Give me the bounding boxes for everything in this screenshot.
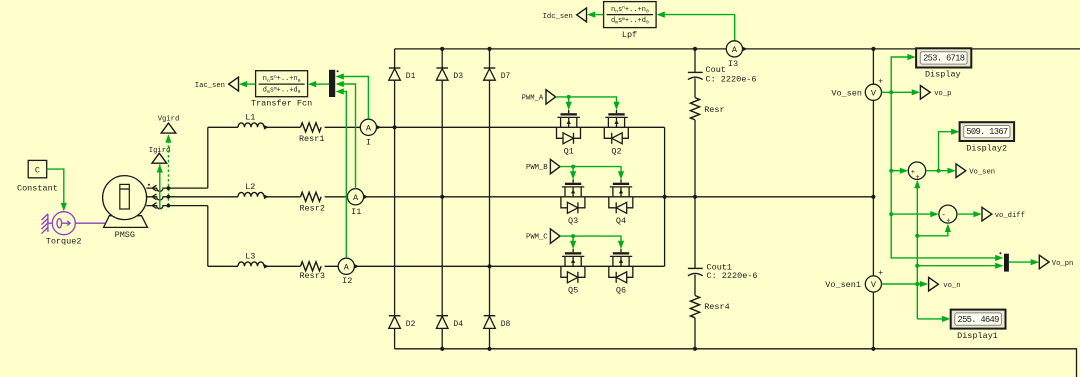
svg-text:Q5: Q5 (568, 286, 578, 296)
svg-text:V: V (871, 280, 877, 290)
wire vo_p trunk down (891, 92, 996, 258)
sum block (vo_p + vo_n) (908, 162, 925, 179)
svg-text:Vo_pn: Vo_pn (1052, 260, 1074, 268)
port PWM_C (550, 229, 560, 243)
resistor Resr (690, 98, 699, 120)
wire branch to Display2 (939, 132, 952, 171)
wire vo_diff bottom input (917, 231, 948, 236)
transistor Q3 (572, 179, 574, 182)
svg-text:Igird: Igird (149, 147, 171, 155)
svg-text:Q2: Q2 (611, 147, 621, 157)
node bottom bus junctions (440, 347, 444, 351)
diode D8 (484, 315, 496, 317)
svg-text:509. 1367: 509. 1367 (966, 127, 1008, 137)
sum block (vo_p - vo_n) (939, 205, 957, 223)
constant block Constant (28, 160, 47, 177)
diode D7 (484, 67, 496, 69)
svg-text:Display2: Display2 (966, 143, 1007, 153)
svg-text:I3: I3 (728, 59, 738, 69)
svg-text:Q1: Q1 (564, 147, 574, 157)
port vo_p (920, 86, 930, 100)
wire dc bus current to Lpf (665, 15, 735, 41)
wire vo_diff left input (891, 213, 931, 215)
node top bus junctions (440, 47, 444, 51)
wire phase A row (208, 126, 238, 128)
wire Transfer Fcn to Iac_sen (246, 83, 256, 85)
transistor Q4 (620, 179, 622, 182)
svg-text:Vo_sen1: Vo_sen1 (825, 280, 861, 290)
svg-text:D3: D3 (453, 72, 463, 81)
svg-text:D7: D7 (501, 72, 511, 81)
svg-text:Q3: Q3 (568, 216, 578, 226)
capacitor Cout (688, 71, 703, 73)
svg-text:Q4: Q4 (616, 216, 626, 226)
svg-text:Lpf: Lpf (622, 30, 637, 40)
resistor Resr4 (690, 296, 699, 318)
wire mux input 1 from ammeter I (344, 77, 369, 120)
svg-text:Display1: Display1 (957, 331, 998, 341)
svg-text:A: A (344, 262, 350, 272)
svg-text:A: A (732, 45, 738, 55)
svg-text:Resr: Resr (704, 105, 724, 115)
svg-text:PWM_C: PWM_C (526, 234, 548, 242)
wire bridge leg x=442.2 (441, 49, 443, 349)
current probe line Igird (159, 164, 161, 209)
diode D1 (389, 67, 401, 69)
port Vo_pn (1039, 255, 1049, 269)
svg-text:Resr4: Resr4 (704, 302, 730, 312)
wire phase C vertical to row 3 (207, 206, 209, 267)
svg-text:Constant: Constant (17, 183, 58, 193)
voltmeter Vo_sen (865, 84, 881, 100)
svg-text:D4: D4 (453, 320, 463, 329)
svg-text:+: + (946, 217, 950, 225)
node phase connections (393, 125, 397, 129)
svg-text:Transfer Fcn: Transfer Fcn (251, 98, 312, 108)
PMSG stator pins with hop arcs and arrowheads (152, 185, 156, 191)
svg-text:+: + (878, 77, 883, 86)
svg-text:I1: I1 (351, 207, 361, 217)
display block Display1 (951, 310, 1006, 329)
wire PWM_A gate drive (556, 97, 617, 103)
wire phase C row (208, 265, 238, 267)
ammeter I (360, 119, 376, 135)
diode D2 (389, 315, 401, 317)
wire Torque2 to PMSG (shaft) (75, 222, 105, 224)
inductor L2 (238, 192, 264, 196)
svg-text:D8: D8 (501, 320, 511, 329)
svg-text:I2: I2 (342, 276, 352, 286)
svg-text:V: V (871, 88, 877, 98)
svg-text:Resr3: Resr3 (299, 271, 325, 281)
inductor L3 (238, 262, 264, 266)
wire bridge leg x=394.6 (394, 49, 396, 349)
svg-text:PWM_A: PWM_A (522, 94, 544, 102)
transistor Q2 (616, 110, 618, 113)
svg-text:L1: L1 (245, 113, 255, 123)
voltmeter Vo_sen1 (865, 276, 881, 292)
wire PWM_B gate drive (560, 167, 621, 173)
svg-text:D2: D2 (406, 320, 416, 329)
svg-text:+: + (878, 269, 883, 278)
wire mux2 output (1009, 261, 1032, 263)
resistor Resr3 (301, 262, 322, 271)
wire mux2 input 2 (vo_n) (917, 265, 996, 267)
svg-text:C: C (35, 165, 40, 175)
wire sum1 bottom input (vo_n) (916, 187, 918, 319)
wire voltage sensor leg (872, 49, 874, 349)
port Iac_sen (229, 77, 239, 91)
svg-text:-: - (941, 211, 946, 220)
wire PWM_C gate drive (560, 236, 621, 242)
wire Vo_sen output to vo_p (882, 91, 913, 93)
wire vo_diff output (957, 213, 974, 215)
svg-text:vo_p: vo_p (934, 90, 951, 98)
svg-text:L3: L3 (245, 252, 255, 262)
port PWM_B (550, 159, 560, 173)
port Igird (152, 153, 167, 163)
svg-text:vo_n: vo_n (943, 282, 960, 290)
svg-text:+: + (911, 169, 915, 177)
wire bridge leg x=489.5 (489, 49, 491, 349)
wire vo_p branch to Display (891, 57, 908, 92)
svg-text:I: I (366, 137, 371, 147)
svg-text:L2: L2 (245, 182, 255, 192)
ammeter I3 (726, 41, 742, 57)
port PWM_A (546, 90, 556, 104)
transistor Q6 (620, 249, 622, 252)
svg-text:D1: D1 (406, 72, 416, 81)
svg-text:C: 2220e-6: C: 2220e-6 (706, 75, 757, 85)
inductor L1 (238, 123, 264, 127)
svg-text:PWM_B: PWM_B (526, 164, 548, 172)
resistor Resr2 (301, 192, 322, 201)
wire mux input 2 from ammeter I1 (344, 84, 356, 189)
svg-text:C: 2220e-6: C: 2220e-6 (707, 271, 758, 281)
transistor Q1 (568, 110, 570, 113)
voltage probe line Vgird (dashed) (167, 135, 169, 205)
wire neutral point bus (664, 127, 666, 266)
resistor Resr1 (301, 123, 322, 132)
transistor Q5 (572, 249, 574, 252)
transfer function block Transfer Fcn (256, 71, 308, 97)
diode D4 (436, 315, 448, 317)
mux (3-phase currents) (329, 70, 335, 97)
wire mux input 3 from ammeter I2 (344, 92, 347, 259)
svg-text:vo_diff: vo_diff (995, 212, 1025, 220)
svg-text:Vo_sen: Vo_sen (831, 88, 862, 98)
diode D3 (436, 67, 448, 69)
wire Lpf to Idc_sen (596, 14, 604, 16)
svg-text:PMSG: PMSG (115, 230, 135, 240)
wire sum1 left input (891, 170, 901, 172)
ammeter I1 (347, 189, 363, 205)
port Idc_sen (577, 8, 587, 22)
wire bottom dc bus (395, 349, 1077, 377)
svg-text:Vo_sen: Vo_sen (969, 168, 995, 176)
wire Constant to Torque2 (47, 169, 64, 204)
wire output capacitor leg (694, 49, 696, 349)
node vo_n junctions (915, 234, 919, 238)
svg-text:A: A (353, 193, 359, 203)
svg-text:Q6: Q6 (616, 286, 626, 296)
machine PMSG (104, 216, 148, 228)
svg-text:A: A (366, 123, 372, 133)
svg-text:255. 4649: 255. 4649 (957, 315, 999, 325)
port Vo_sen (956, 164, 966, 178)
svg-text:Display: Display (925, 70, 961, 80)
ammeter I2 (338, 258, 354, 274)
capacitor Cout1 (688, 267, 703, 269)
torque source Torque2 (42, 212, 76, 235)
port Vgird (161, 123, 176, 133)
wire Vo_sen1 output to vo_n (882, 283, 921, 285)
port vo_diff (982, 207, 992, 221)
svg-text:Iac_sen: Iac_sen (195, 82, 225, 90)
wire sum1 output to Vo_sen port (926, 170, 949, 172)
svg-text:Resr2: Resr2 (299, 203, 325, 213)
wire top dc bus (395, 48, 1080, 50)
display block Display2 (960, 122, 1015, 141)
svg-text:Torque2: Torque2 (46, 236, 82, 246)
wire phase A vertical from PMSG pin1 (207, 127, 209, 188)
mux Vo_pn (1004, 254, 1009, 272)
svg-text:Idc_sen: Idc_sen (543, 13, 573, 21)
port vo_n (929, 277, 939, 291)
svg-text:Resr1: Resr1 (299, 134, 325, 144)
svg-text:Vgird: Vgird (158, 116, 180, 124)
display block Display (916, 48, 971, 67)
wire vo_n to Display1 (917, 318, 943, 320)
svg-text:253. 6718: 253. 6718 (923, 53, 965, 63)
wire mux output to Transfer Fcn (314, 83, 329, 85)
transfer function block Lpf (604, 2, 657, 28)
